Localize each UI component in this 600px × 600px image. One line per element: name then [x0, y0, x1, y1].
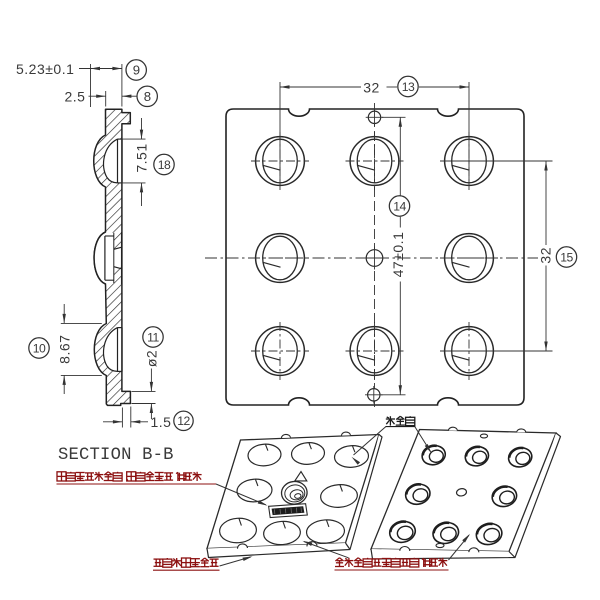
- dimension 47±0.1 vertical: [382, 116, 406, 118]
- lens at col 280 row 351: outer circle, inner ellipse, gate tick: [256, 327, 305, 376]
- svg-text:12: 12: [177, 414, 190, 428]
- top view: lens plate outline with corner radii and edge notches: [226, 109, 524, 405]
- isometric view 2 (front side with lens domes) outline: [371, 430, 556, 552]
- section view: lens plate cross-section outline (hatched body): [94, 109, 131, 405]
- dimension 7.51 (lens cavity dia): [119, 138, 146, 140]
- balloon 9: [126, 60, 146, 80]
- small notches on right plate edges: [448, 427, 457, 430]
- dimension 32 vertical right: [441, 160, 553, 162]
- svg-text:1.5: 1.5: [151, 414, 172, 430]
- svg-text:47±0.1: 47±0.1: [390, 232, 406, 278]
- label: stamp area mirror/frosted note (red) with leader to stamp: [57, 472, 66, 481]
- lens at col 469 row 161: outer circle, inner ellipse, gate tick: [445, 137, 494, 186]
- svg-text:32: 32: [538, 247, 554, 264]
- lens at col 280 row 258: outer circle, inner ellipse, gate tick: [256, 234, 305, 283]
- top mounting hole (iso): [480, 434, 487, 438]
- svg-text:11: 11: [147, 330, 159, 344]
- balloon 15: [556, 247, 576, 267]
- lens at col 374 row 161: outer circle, inner ellipse, gate tick: [350, 137, 399, 186]
- lens cavity 2 in section: [104, 328, 122, 372]
- left plate side thickness faces: [207, 435, 382, 558]
- svg-text:2.5: 2.5: [65, 89, 86, 105]
- balloon 13: [398, 76, 418, 96]
- lens at col 374 row 351: outer circle, inner ellipse, gate tick: [350, 327, 399, 376]
- bottom mounting hole (iso): [436, 543, 444, 547]
- right plate side thickness faces: [371, 433, 561, 559]
- svg-text:5.23±0.1: 5.23±0.1: [16, 61, 74, 77]
- bottom mounting hole: [368, 389, 380, 401]
- lens at col 280 row 161: outer circle, inner ellipse, gate tick: [256, 137, 305, 186]
- central logo boss (concentric rings): [280, 480, 308, 505]
- label: optical surface (光学面) with two leaders: [389, 416, 391, 425]
- dimension 8.67 (dome dia): [61, 322, 102, 324]
- balloon 18: [154, 154, 174, 174]
- dimension 1.5 (pin length): [121, 408, 123, 428]
- svg-text:13: 13: [402, 80, 415, 94]
- svg-text:8: 8: [144, 89, 151, 104]
- vertical center line (dashed) through holes: [374, 103, 376, 411]
- logo stamp plate (dark filled): [269, 504, 308, 518]
- orientation triangle marker: [295, 472, 307, 481]
- isometric view 1 (back side of lens plate) outline: [207, 435, 379, 549]
- dimension ø2 (pin dia): [132, 390, 156, 392]
- label: sides not frosted (red) with leader: [154, 558, 163, 560]
- svg-text:8.67: 8.67: [57, 335, 73, 364]
- svg-text:14: 14: [393, 199, 406, 213]
- svg-text:15: 15: [560, 250, 573, 264]
- svg-text:7.51: 7.51: [134, 143, 150, 172]
- dimension 5.23±0.1 with extension lines: [90, 64, 92, 107]
- balloon 14: [389, 196, 409, 216]
- balloon 11: [143, 327, 163, 347]
- lens cavity openings on back (8 ellipses with gate ticks): [247, 443, 281, 467]
- svg-text:10: 10: [33, 341, 46, 355]
- balloon 10: [29, 338, 49, 358]
- middle row: center hole bore, lens dome silhouette behind cut plane: [94, 233, 122, 283]
- lens cavity 1 in section: [104, 139, 122, 183]
- balloon 12: [174, 411, 193, 430]
- lens at col 469 row 258: outer circle, inner ellipse, gate tick: [445, 234, 494, 283]
- top mounting hole: [368, 111, 380, 123]
- dimension 2.5: [105, 91, 107, 107]
- svg-text:SECTION B-B: SECTION B-B: [58, 446, 174, 465]
- center hole on right plate: [456, 488, 467, 497]
- svg-text:9: 9: [133, 63, 140, 78]
- small notches on left plate edges: [281, 434, 290, 438]
- lens at col 469 row 351: outer circle, inner ellipse, gate tick: [445, 327, 494, 376]
- horizontal center line (dash-dot): [205, 257, 538, 259]
- svg-text:ø2: ø2: [143, 350, 159, 367]
- label: all faces frosted except optical (red) with two leaders: [335, 558, 339, 561]
- center hole: [366, 250, 383, 267]
- dimension 32 horizontal (lens pitch x2): [279, 82, 281, 186]
- balloon 8: [137, 86, 157, 106]
- lens domes on front (8 bold ellipses): [420, 443, 447, 467]
- svg-text:32: 32: [363, 80, 380, 96]
- svg-text:18: 18: [158, 158, 171, 172]
